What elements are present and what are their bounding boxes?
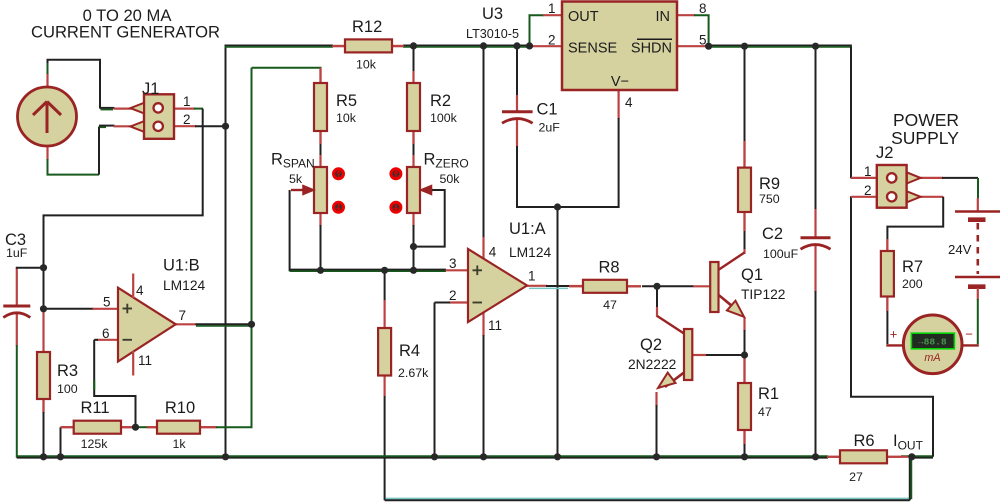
svg-text:J1: J1 bbox=[142, 80, 159, 98]
svg-text:TIP122: TIP122 bbox=[741, 287, 785, 302]
svg-text:11: 11 bbox=[138, 353, 152, 368]
svg-text:5: 5 bbox=[103, 295, 111, 310]
svg-text:+: + bbox=[890, 327, 898, 342]
svg-text:R1: R1 bbox=[758, 385, 779, 403]
svg-text:24V: 24V bbox=[948, 242, 972, 257]
svg-text:R7: R7 bbox=[902, 258, 923, 276]
svg-text:POWER: POWER bbox=[893, 110, 959, 130]
svg-text:R9: R9 bbox=[759, 175, 780, 193]
svg-text:LM124: LM124 bbox=[509, 245, 552, 260]
svg-text:C1: C1 bbox=[537, 101, 558, 119]
svg-text:R12: R12 bbox=[352, 18, 382, 36]
svg-text:100uF: 100uF bbox=[763, 247, 799, 261]
svg-text:4: 4 bbox=[489, 245, 497, 260]
svg-text:4: 4 bbox=[136, 283, 144, 298]
svg-text:mA: mA bbox=[924, 352, 940, 364]
svg-text:47: 47 bbox=[603, 298, 617, 312]
svg-text:1: 1 bbox=[548, 1, 556, 16]
svg-text:R4: R4 bbox=[399, 342, 420, 360]
svg-text:V−: V− bbox=[611, 74, 629, 90]
svg-text:50k: 50k bbox=[440, 172, 461, 186]
svg-text:2: 2 bbox=[449, 288, 457, 303]
svg-text:200: 200 bbox=[902, 277, 923, 291]
svg-text:27: 27 bbox=[849, 470, 863, 484]
svg-text:Q1: Q1 bbox=[741, 266, 763, 284]
svg-text:R8: R8 bbox=[598, 259, 619, 277]
svg-text:CURRENT GENERATOR: CURRENT GENERATOR bbox=[31, 22, 220, 41]
svg-text:7: 7 bbox=[179, 308, 187, 323]
svg-text:100k: 100k bbox=[430, 111, 458, 125]
svg-text:SHDN: SHDN bbox=[631, 41, 672, 57]
svg-text:−: − bbox=[965, 327, 973, 342]
svg-text:5k: 5k bbox=[289, 172, 303, 186]
svg-text:2: 2 bbox=[548, 33, 556, 48]
svg-text:C2: C2 bbox=[762, 225, 783, 243]
svg-text:2N2222: 2N2222 bbox=[628, 357, 676, 372]
svg-text:11: 11 bbox=[488, 318, 502, 333]
svg-text:SUPPLY: SUPPLY bbox=[891, 128, 959, 148]
svg-text:10k: 10k bbox=[336, 111, 357, 125]
svg-text:J2: J2 bbox=[876, 144, 893, 162]
svg-text:1: 1 bbox=[183, 94, 191, 109]
svg-text:100: 100 bbox=[57, 382, 78, 396]
svg-text:6: 6 bbox=[102, 326, 110, 341]
svg-text:OUT: OUT bbox=[568, 9, 599, 25]
svg-text:2.67k: 2.67k bbox=[398, 366, 429, 380]
svg-text:2: 2 bbox=[864, 183, 872, 198]
svg-text:R6: R6 bbox=[853, 432, 874, 450]
svg-text:R3: R3 bbox=[57, 362, 78, 380]
svg-text:1k: 1k bbox=[172, 437, 186, 451]
svg-text:R10: R10 bbox=[165, 399, 195, 417]
svg-text:1: 1 bbox=[528, 269, 536, 284]
svg-text:U1:B: U1:B bbox=[163, 257, 200, 275]
svg-text:2: 2 bbox=[183, 112, 191, 127]
svg-text:SENSE: SENSE bbox=[568, 41, 617, 57]
svg-text:2uF: 2uF bbox=[539, 121, 561, 135]
svg-text:→88.8: →88.8 bbox=[918, 337, 947, 348]
svg-text:8: 8 bbox=[699, 1, 707, 16]
svg-text:1: 1 bbox=[864, 164, 872, 179]
svg-text:Q2: Q2 bbox=[640, 336, 662, 354]
svg-text:R11: R11 bbox=[80, 399, 109, 417]
svg-text:LM124: LM124 bbox=[163, 278, 206, 293]
svg-text:1uF: 1uF bbox=[6, 246, 28, 260]
svg-text:R5: R5 bbox=[336, 92, 357, 110]
svg-text:LT3010-5: LT3010-5 bbox=[466, 27, 519, 41]
svg-text:U3: U3 bbox=[482, 5, 503, 23]
svg-text:750: 750 bbox=[759, 192, 780, 206]
svg-text:IN: IN bbox=[656, 9, 671, 25]
svg-text:3: 3 bbox=[449, 256, 457, 271]
svg-text:4: 4 bbox=[625, 95, 633, 110]
svg-text:10k: 10k bbox=[356, 58, 377, 72]
svg-text:47: 47 bbox=[758, 405, 772, 419]
svg-text:5: 5 bbox=[699, 33, 707, 48]
svg-text:R2: R2 bbox=[430, 92, 451, 110]
svg-text:125k: 125k bbox=[81, 437, 109, 451]
svg-text:U1:A: U1:A bbox=[509, 220, 546, 238]
